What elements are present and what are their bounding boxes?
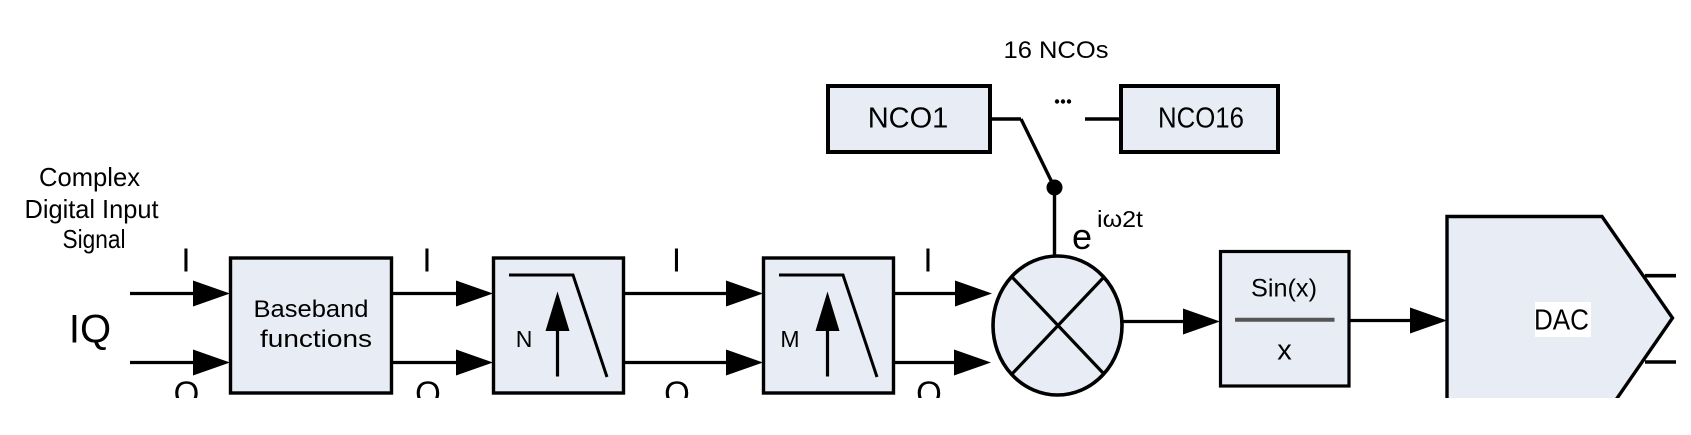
svg-text:M: M xyxy=(780,326,799,352)
block NCO1 xyxy=(828,86,990,152)
wire sinc to DAC xyxy=(1349,308,1447,334)
block Sin(x)/x xyxy=(1221,252,1350,387)
block DAC xyxy=(1447,217,1673,421)
wire I input xyxy=(130,281,230,307)
junction dot xyxy=(1047,180,1063,196)
svg-text:Digital Input: Digital Input xyxy=(25,194,160,224)
crop mask (image cut at bottom) xyxy=(0,398,1691,435)
wire Q filter N to filter M xyxy=(624,350,763,376)
mixer (multiplier) xyxy=(993,256,1122,395)
svg-text:DAC: DAC xyxy=(1534,305,1589,337)
wire Q input xyxy=(130,350,230,376)
block Baseband functions xyxy=(231,258,392,393)
svg-text:I: I xyxy=(923,242,932,279)
svg-text:Baseband: Baseband xyxy=(254,296,369,323)
wire Q baseband to filter N xyxy=(391,350,493,376)
svg-text:N: N xyxy=(516,326,533,352)
svg-text:IQ: IQ xyxy=(69,308,111,352)
svg-text:Signal: Signal xyxy=(63,224,126,254)
svg-text:Complex: Complex xyxy=(39,162,140,192)
svg-text:x: x xyxy=(1277,335,1292,367)
node ellipsis between NCOs xyxy=(1055,99,1071,103)
svg-text:I: I xyxy=(181,242,190,279)
wire Q filter M to mixer xyxy=(894,350,991,376)
wire NCO16 stub xyxy=(1085,117,1121,120)
block interpolation filter M xyxy=(764,258,894,393)
svg-text:16 NCOs: 16 NCOs xyxy=(1004,37,1109,64)
wire switch to mixer xyxy=(1053,188,1056,258)
wire I filter N to filter M xyxy=(624,281,763,307)
label e^iw2t xyxy=(1072,206,1144,257)
svg-text:NCO1: NCO1 xyxy=(868,103,949,135)
svg-text:e: e xyxy=(1072,216,1092,257)
wire switch arm xyxy=(1021,119,1055,188)
svg-text:Sin(x): Sin(x) xyxy=(1251,275,1317,303)
block interpolation filter N xyxy=(494,258,624,393)
wire I baseband to filter N xyxy=(391,281,493,307)
svg-text:I: I xyxy=(422,242,431,279)
svg-text:NCO16: NCO16 xyxy=(1158,103,1244,135)
wire mixer to sinc xyxy=(1122,309,1220,335)
node label: Complex Digital Input Signal xyxy=(25,162,160,254)
svg-text:functions: functions xyxy=(260,326,372,353)
wire NCO1 to switch xyxy=(992,117,1021,120)
svg-text:I: I xyxy=(672,242,681,279)
wire DAC output minus xyxy=(1645,360,1676,364)
svg-text:iω2t: iω2t xyxy=(1097,206,1144,232)
block NCO16 xyxy=(1121,86,1278,152)
wire I filter M to mixer xyxy=(894,281,992,307)
wire DAC output plus xyxy=(1645,274,1676,278)
